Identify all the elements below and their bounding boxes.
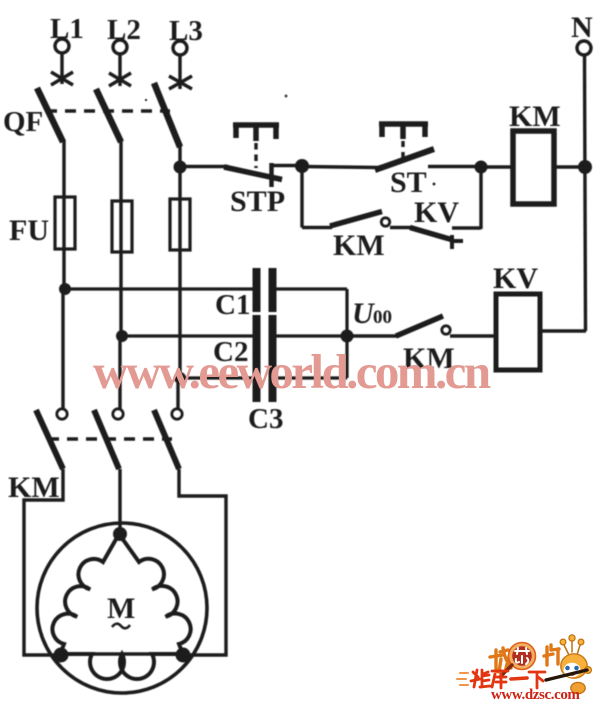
- node junction after STP: [295, 159, 309, 173]
- wire L2 row2 to contactor: [118, 336, 121, 409]
- logo mascot hand blob: [585, 667, 592, 674]
- wire ST to KM coil node: [428, 165, 481, 168]
- contactor KM pole1 blade: [36, 410, 63, 469]
- logo hanzi xin (芯) inside glass: [515, 648, 529, 664]
- label tilde: [112, 624, 130, 629]
- logo mascot crown balls: [560, 635, 584, 645]
- logo hanzi zhao (找) outline: [490, 648, 511, 672]
- wire control row to STP: [180, 165, 228, 168]
- X mark L3: [169, 76, 192, 89]
- logo magnifier handle: [500, 665, 512, 677]
- logo hanzi xia (下) red: [529, 672, 545, 688]
- contact KV blade tip cross: [452, 235, 463, 249]
- breaker QF blade pole1: [37, 88, 63, 142]
- logo mascot crown stems: [564, 641, 580, 655]
- node junction on L3 control tap: [174, 161, 187, 174]
- svg-text:QF: QF: [3, 106, 43, 138]
- svg-text:KV: KV: [493, 262, 538, 295]
- logo mascot eyes: [565, 666, 570, 671]
- contactor KM pole2 blade: [94, 410, 119, 469]
- fuse FU3: [170, 199, 190, 250]
- contact KV blade: [410, 228, 453, 241]
- breaker QF blade pole3: [154, 83, 180, 147]
- pushbutton ST actuator: [379, 124, 428, 139]
- wire pole3 down: [179, 469, 226, 655]
- contact KM aux terminal circle: [381, 218, 389, 226]
- logo hanzi ku (库) red: [492, 671, 508, 688]
- motor winding delta: [52, 534, 190, 679]
- motor terminal bottom-left: [54, 648, 69, 663]
- svg-text:C1: C1: [215, 289, 250, 321]
- wire L1 to fuse: [62, 140, 65, 290]
- X mark L2: [109, 73, 131, 86]
- node junction before KM coil: [475, 161, 488, 174]
- terminal circle N: [577, 41, 591, 55]
- motor bottom edge: [60, 652, 183, 655]
- contact ST blade: [375, 149, 434, 170]
- speck above STP: [284, 94, 287, 97]
- logo hanzi wei (维) red: [471, 670, 490, 687]
- logo hanzi yi (一) red: [511, 678, 527, 679]
- contactor KM pole3 blade: [154, 410, 179, 469]
- terminal circle L3: [173, 41, 187, 55]
- logo mascot pen stick: [546, 670, 587, 680]
- wire node to KM coil: [481, 165, 512, 168]
- logo speed dashes: [457, 673, 468, 685]
- wire common node vertical lower: [345, 336, 348, 378]
- svg-text:KM: KM: [333, 229, 385, 262]
- wire row3 to C3: [180, 376, 254, 379]
- contact KM (KV circuit) blade: [396, 316, 443, 336]
- svg-text:M: M: [107, 592, 135, 625]
- motor terminal top: [113, 527, 127, 541]
- pushbutton STP actuator: [233, 125, 279, 141]
- svg-text:U: U: [352, 297, 375, 330]
- wire KM aux to KV contact: [390, 226, 412, 229]
- wire C3 to common node: [275, 376, 347, 379]
- svg-text:FU: FU: [9, 214, 49, 247]
- wire L3 to fuse: [178, 145, 181, 380]
- svg-text:STP: STP: [230, 185, 285, 218]
- wire STP to node: [272, 164, 298, 167]
- wire KV contact to branch corner: [452, 226, 481, 229]
- wire L3 drop: [178, 55, 181, 89]
- svg-text:KM: KM: [509, 100, 561, 133]
- terminal circle L2: [113, 40, 127, 54]
- logo mascot body: [571, 682, 585, 693]
- motor terminal bottom-right: [176, 648, 191, 663]
- svg-text:ST: ST: [390, 166, 427, 199]
- breaker QF blade pole2: [96, 89, 121, 142]
- terminal circle L1: [55, 39, 69, 53]
- node junction on N line: [578, 160, 592, 174]
- svg-text:KV: KV: [414, 196, 459, 229]
- node junction U00: [341, 330, 354, 343]
- contactor KM pole3 terminal circle: [172, 409, 182, 419]
- wire pole1 down: [24, 469, 63, 655]
- wire common node vertical upper: [345, 289, 348, 336]
- node junction row3 on L3: [174, 372, 186, 384]
- logo magnifier glass: [511, 645, 534, 668]
- wire KV coil to N: [540, 329, 586, 332]
- logo mascot face: [564, 663, 581, 677]
- svg-text:www.dzsc.com: www.dzsc.com: [491, 687, 580, 701]
- logo dzsc group: [457, 635, 591, 703]
- contactor KM linkage dashed: [48, 437, 172, 440]
- svg-text:00: 00: [373, 307, 392, 328]
- wire L2 to fuse: [119, 140, 122, 337]
- contact KM aux blade: [330, 212, 382, 227]
- contactor KM pole2 terminal circle: [113, 409, 123, 419]
- contact KM terminal circle: [442, 326, 450, 334]
- logo mascot mouth: [569, 674, 575, 676]
- pushbutton ST link dashed: [401, 141, 404, 158]
- speck left of L2 blade: [145, 99, 148, 102]
- wire branch bottom left: [302, 226, 332, 229]
- wire L2 drop: [118, 54, 121, 86]
- node junction row2 on L2: [116, 330, 128, 342]
- wire L1 drop: [60, 53, 63, 84]
- logo mascot head: [561, 654, 587, 678]
- capacitor C2: [257, 315, 273, 359]
- wire KM coil to N: [554, 165, 585, 168]
- wire C1 to common node: [275, 287, 347, 290]
- contactor KM pole1 terminal circle: [57, 409, 67, 419]
- speck near ST label: [432, 182, 435, 185]
- wire U00 node to KM contact: [347, 334, 398, 337]
- wire L3 row3 to contactor: [176, 378, 179, 409]
- logo hanzi pian (片) outline: [544, 645, 559, 665]
- wire pole2 down to motor: [118, 469, 121, 534]
- contact STP terminal bar: [269, 163, 274, 187]
- svg-text:www.eeworld.com.cn: www.eeworld.com.cn: [93, 344, 491, 399]
- wire row2 to C2: [122, 334, 254, 337]
- wire L1 row1 to contactor: [61, 289, 64, 409]
- capacitor C3: [257, 358, 273, 402]
- contact STP blade: [224, 167, 282, 180]
- coil KM: [513, 131, 554, 204]
- coil KV: [496, 294, 540, 370]
- breaker QF linkage dashed: [46, 109, 170, 112]
- motor M circle: [37, 523, 207, 693]
- capacitor C1: [257, 268, 273, 312]
- wire C2 to common node: [275, 334, 347, 337]
- wire branch down from ST node: [300, 166, 303, 228]
- pushbutton STP link dashed: [254, 143, 257, 168]
- X mark L1: [51, 72, 73, 85]
- wire branch right vertical: [479, 167, 482, 229]
- wire row1 to C1: [65, 287, 254, 290]
- wire KM contact to KV coil: [450, 334, 494, 337]
- svg-text:N: N: [571, 11, 593, 44]
- fuse FU2: [112, 201, 132, 252]
- wire node to ST: [302, 167, 378, 168]
- node junction row1 on L1: [59, 283, 71, 295]
- wire N line: [585, 55, 586, 331]
- svg-text:C3: C3: [248, 403, 283, 435]
- fuse FU1: [55, 197, 75, 249]
